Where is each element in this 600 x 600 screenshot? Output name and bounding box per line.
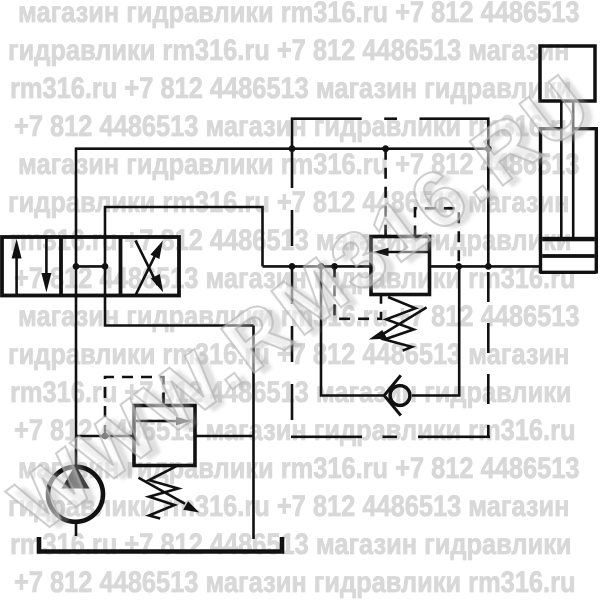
- relief valve RV1 adjust arrow: [369, 307, 427, 339]
- junction node on A-line at enclosure left: [289, 145, 296, 152]
- enclosure dashed left edge: [291, 152, 294, 437]
- junction node RV1 drain tap: [331, 263, 338, 270]
- cylinder C1 rod: [561, 101, 573, 237]
- relief valve RV2 adjust arrow: [139, 478, 200, 513]
- junction node on A-line pilot tap: [382, 145, 389, 152]
- junction node bypass right: [455, 263, 462, 270]
- wire pump suction to tank: [75, 524, 78, 537]
- enclosure bottom edge seg2: [383, 435, 398, 438]
- enclosure dashed right edge: [487, 272, 490, 437]
- junction node on A-line right: [485, 145, 492, 152]
- cylinder C1 barrel: [540, 127, 596, 274]
- wire RV2 outlet: [195, 435, 254, 438]
- junction node cylinder feed: [485, 263, 492, 270]
- wire RV1 main line left segment: [263, 265, 372, 268]
- wire B-line from valve port B up, right, down to RV1 line: [105, 207, 263, 266]
- wire enclosure top-left riser: [292, 119, 362, 149]
- wire check-valve bypass right: [412, 266, 459, 395]
- junction node bypass left: [318, 263, 325, 270]
- cylinder load block: [540, 46, 595, 101]
- relief valve RV1 body: [371, 237, 430, 295]
- check valve CV1: [384, 375, 410, 415]
- valve cell1 up arrow: [12, 239, 22, 294]
- valve cell2 pass lines with junctions: [73, 237, 109, 296]
- directional valve body: [2, 237, 179, 296]
- wire RV1 main line right segment to cylinder: [430, 265, 540, 268]
- wire A-line from valve port A up and right: [76, 149, 488, 237]
- tank T1: [39, 537, 282, 552]
- pilot drain RV1 spring side: [335, 266, 382, 318]
- wire from A-line down to cylinder feed line: [487, 149, 490, 267]
- relief valve RV2 body: [134, 406, 195, 466]
- enclosure bottom edge seg3: [418, 435, 490, 438]
- valve cell3 crossed arrow 2: [136, 241, 164, 293]
- wire enclosure top mid dash: [384, 117, 397, 120]
- pilot line RV1 top to downstream: [415, 208, 459, 266]
- wire valve T port return: [105, 296, 254, 326]
- cylinder C1 piston: [542, 237, 594, 258]
- valve cell3 crossed arrow 1: [136, 241, 163, 295]
- wire enclosure top-right riser: [420, 119, 489, 149]
- junction node RV2 pilot tap: [102, 433, 109, 440]
- enclosure bottom edge seg1: [291, 435, 362, 438]
- pilot line RV2 top: [105, 377, 164, 436]
- pilot line A to RV1 top: [384, 149, 387, 237]
- watermark rows: [18, 0, 580, 28]
- relief valve RV1 spring: [384, 297, 415, 351]
- valve cell1 down arrow: [41, 239, 51, 293]
- junction node B-line at enclosure left: [289, 263, 296, 270]
- wire pump tap to RV2: [76, 435, 134, 438]
- pump P1: [48, 465, 103, 522]
- wire valve P port to pump: [75, 296, 78, 466]
- relief valve RV2 spring: [149, 466, 178, 519]
- wire check-valve bypass left: [321, 266, 385, 395]
- wire return drop to tank: [252, 326, 255, 540]
